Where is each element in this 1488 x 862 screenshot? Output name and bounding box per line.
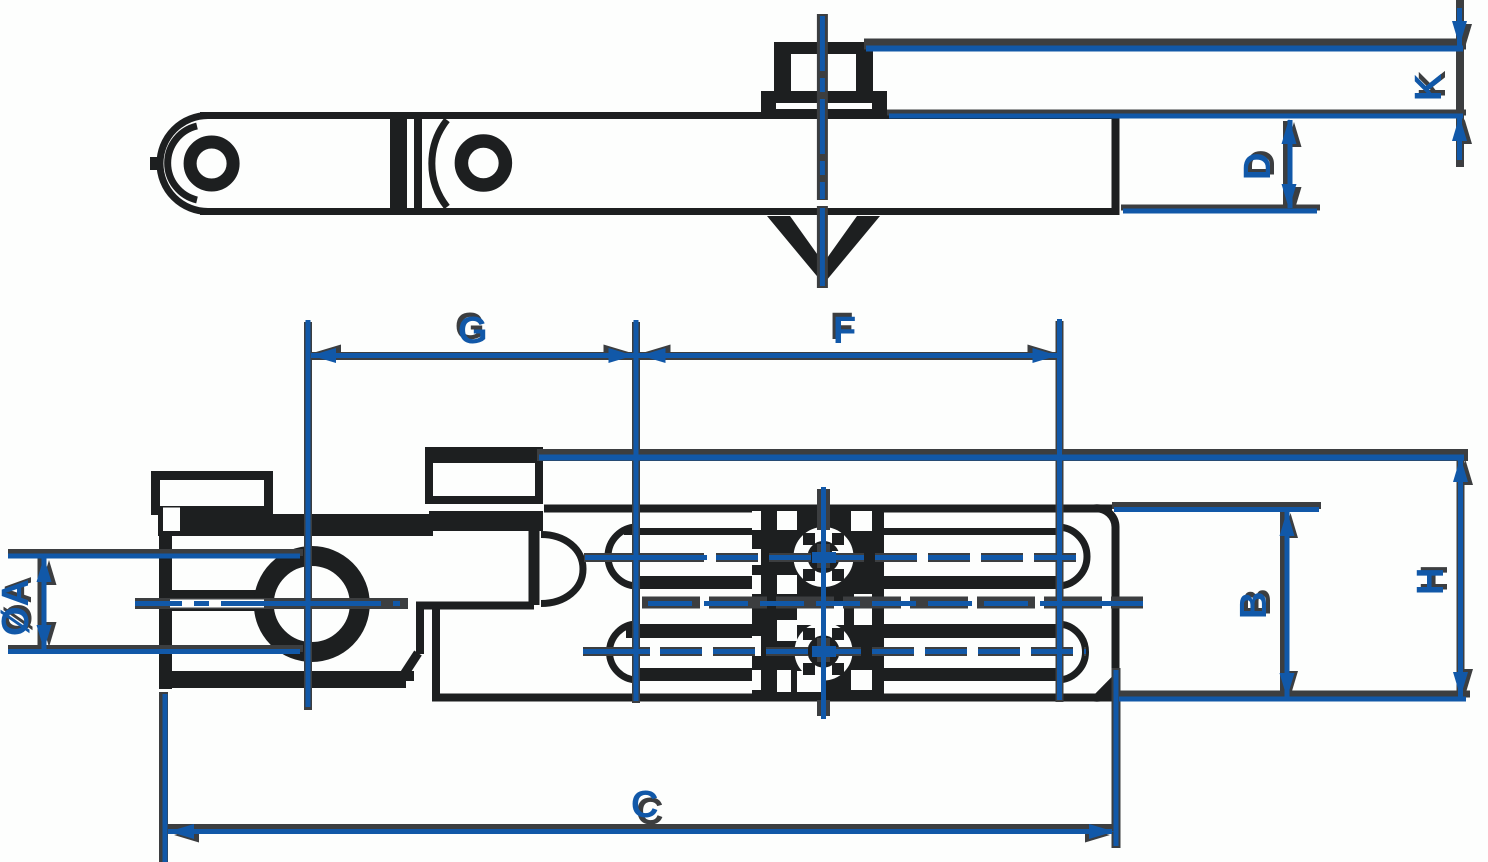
shadow D arrows: [1287, 122, 1302, 147]
C arrow left: [169, 824, 194, 839]
center line casing: spindle tip: [817, 206, 828, 288]
G arrow right: [609, 348, 634, 363]
shadow G arrows: [316, 345, 341, 360]
OA arrow top: [37, 557, 52, 582]
block notch g: [777, 670, 791, 692]
body right end: [1094, 508, 1116, 697]
slot 1 left arc: [608, 527, 638, 586]
K dim blue: [1457, 8, 1462, 46]
main center hline dashed left: [135, 601, 400, 606]
arm fork edge: [529, 531, 540, 605]
B top ext gray: [1112, 502, 1321, 509]
K arrow bottom: [1452, 116, 1467, 141]
boss arc at hole 1: [168, 126, 197, 200]
slot2 center solid: [583, 649, 650, 654]
base top band: [158, 514, 433, 536]
D bottom ext blue: [1123, 209, 1317, 214]
cross bar top band: [425, 447, 543, 463]
bar right end edge: [1112, 112, 1120, 215]
bolt flange left: [761, 91, 776, 115]
main center hline dashed right: [648, 601, 1143, 606]
base bottom band a: [162, 671, 414, 681]
pivot vline gray: [304, 322, 312, 710]
svg-text:H: H: [1410, 568, 1452, 595]
block notch e: [797, 603, 844, 625]
svg-text:C: C: [631, 784, 658, 826]
shadow C arrows: [174, 828, 199, 843]
block notch m: [752, 636, 761, 656]
G dim blue: [311, 353, 636, 358]
svg-text:ØA: ØA: [0, 579, 37, 636]
break line thin: [414, 119, 422, 208]
base bottom band b: [162, 679, 406, 688]
F dim blue: [638, 353, 1058, 358]
slot1 center dashed: [716, 555, 1086, 560]
right vline gray: [1056, 321, 1064, 702]
center line blue: bolt: [820, 16, 825, 199]
OA top ext blue: [8, 554, 300, 559]
pivot vline blue: [306, 320, 311, 707]
H top ext gray: [537, 449, 1468, 461]
B top ext blue: [1114, 507, 1319, 512]
block notch d: [854, 594, 872, 625]
K top ext gray: [864, 39, 1466, 50]
nut vline gray top: [817, 489, 830, 530]
OA arrow bottom: [37, 625, 52, 650]
D bottom ext gray: [1121, 205, 1320, 211]
corner step chamfer: [403, 653, 418, 676]
rod 1 top edge: [624, 528, 1060, 535]
spindle nut block: [752, 505, 884, 701]
body top edge: [544, 505, 1112, 513]
block notch j: [752, 511, 761, 530]
G arrow left: [311, 348, 336, 363]
svg-text:D: D: [1237, 153, 1279, 180]
C right ext gray: [1112, 668, 1121, 848]
arm web edge: [432, 607, 440, 700]
H arrow bottom: [1453, 672, 1468, 697]
rod 2 top band: [626, 624, 1060, 638]
center line casing: bolt: [817, 14, 828, 200]
nut cross wide 1: [812, 552, 836, 563]
base left edge: [159, 531, 172, 689]
main hline gray casing left: [135, 598, 408, 609]
nut flat glint: [832, 551, 840, 559]
nut ring 1: [801, 534, 847, 580]
body bottom edge: [432, 694, 1112, 702]
body corner fillet: [1088, 669, 1120, 701]
D arrow bottom: [1282, 184, 1297, 209]
C right ext blue: [1114, 670, 1119, 846]
F dim gray: [640, 352, 1059, 360]
nut hex corner d: [832, 569, 844, 581]
slot2 cline gray casing: [583, 647, 650, 656]
C left ext blue: [163, 694, 168, 862]
svg-text:G: G: [458, 310, 488, 352]
arm bottom edge: [416, 602, 534, 610]
bar left rounded end: [160, 116, 208, 212]
slot2 center dashed: [660, 649, 1086, 654]
break line thick: [390, 112, 407, 215]
arm rounded cap: [541, 535, 583, 604]
block notch l: [752, 575, 761, 594]
handle grip: [156, 476, 269, 511]
shadow OA arrows: [42, 560, 57, 585]
block notch a: [777, 511, 797, 530]
shadow H arrows: [1458, 460, 1473, 485]
nut vline blue: [821, 487, 826, 719]
OA dim gray: [38, 557, 45, 650]
center line blue: spindle tip: [820, 208, 825, 286]
slot 2 left arc: [610, 624, 638, 680]
OA bot ext blue: [8, 649, 300, 654]
bolt head right: [856, 42, 873, 92]
H top ext blue: [539, 455, 1464, 461]
nut ring 2: [801, 629, 846, 674]
block notch f: [777, 620, 797, 641]
svg-text:F: F: [833, 310, 856, 352]
right vline blue: [1057, 319, 1062, 700]
svg-text:K: K: [1408, 73, 1450, 101]
boss arc at hole 2: [432, 120, 447, 207]
OA dim blue: [42, 557, 47, 650]
D dim gray: [1283, 121, 1291, 207]
hole 2: [461, 141, 505, 185]
bolt head top: [774, 42, 873, 54]
wire: bar top edge: [200, 112, 1119, 119]
nut vline gray c2: [817, 638, 830, 662]
arm shank to grip: [172, 590, 260, 611]
H dim blue: [1458, 458, 1463, 697]
B dim blue: [1285, 511, 1290, 698]
K top ext blue: [866, 46, 1463, 52]
nut hex corner f: [803, 628, 815, 640]
nut hex corner e: [832, 628, 844, 640]
bolt head left: [774, 42, 791, 92]
block notch b: [851, 511, 872, 531]
spindle tip cone: [767, 216, 880, 284]
pivot boss ring: [264, 556, 360, 652]
handle notch: [163, 508, 180, 532]
H arrow top: [1453, 457, 1468, 482]
D dim blue: [1288, 120, 1293, 208]
nut hex corner a: [832, 533, 844, 545]
shadow K arrows: [1457, 24, 1472, 49]
H dim gray: [1457, 457, 1465, 698]
block notch n: [752, 670, 761, 690]
shadow B arrows: [1283, 513, 1298, 538]
slot 2 right arc: [1058, 624, 1086, 680]
main center hline solid right end: [1045, 601, 1143, 606]
main hline gray casing right: [642, 597, 1143, 609]
slot1 cline gray casing: [584, 553, 704, 562]
nut hex corner h: [832, 663, 844, 675]
F arrow left: [641, 348, 666, 363]
left pin nub: [150, 157, 160, 170]
arm corner edge: [416, 605, 424, 654]
nut cross wide 2: [812, 646, 836, 657]
OA top ext gray: [8, 549, 303, 556]
slot1 cline gray dashed: [716, 553, 1086, 562]
C arrow right: [1089, 824, 1114, 839]
bottom shared ext gray: [1119, 691, 1470, 698]
bolt flange right: [872, 91, 887, 115]
G dim gray: [311, 352, 636, 360]
block notch c: [777, 575, 797, 594]
svg-text:B: B: [1233, 592, 1275, 619]
block notch h: [851, 670, 872, 690]
OA bot ext gray: [8, 645, 303, 652]
main center hline solid over circle: [250, 601, 378, 606]
bolt flange bottom: [761, 109, 887, 115]
B arrow bottom: [1280, 673, 1295, 698]
C left ext gray: [159, 692, 168, 862]
shadow F arrows: [646, 345, 671, 360]
mid vline gray: [632, 322, 640, 703]
wire: bar bottom edge: [200, 208, 1119, 215]
bottom shared ext blue: [1119, 697, 1466, 702]
rod 2 bottom band: [634, 668, 1060, 681]
slot1 center solid: [585, 555, 707, 560]
band under cross bar: [429, 511, 543, 531]
B dim gray: [1280, 510, 1287, 699]
bolt flange top: [761, 91, 887, 103]
nut hex corner c: [803, 569, 815, 581]
slot 1 right arc: [1058, 527, 1088, 586]
block notch i: [797, 671, 822, 692]
mid vline blue: [634, 320, 639, 701]
C dim blue: [168, 829, 1112, 834]
bar top ext blue: [889, 114, 1463, 119]
hole 1: [190, 142, 233, 185]
cross bar block: [429, 452, 539, 500]
slot2 cline gray dashed: [660, 647, 1086, 656]
B arrow top: [1280, 511, 1295, 536]
D arrow top: [1282, 119, 1297, 144]
K dim line gray: [1456, 0, 1464, 167]
bar top ext gray: [887, 110, 1466, 116]
nut hex corner g: [803, 663, 815, 675]
K arrow top: [1452, 21, 1467, 46]
nut vline gray c1: [817, 544, 830, 568]
center line white backing over arm shank: [170, 600, 264, 608]
rod 1 bottom band: [632, 576, 1060, 589]
nut vline gray bottom: [817, 700, 830, 716]
nut hex corner b: [803, 533, 815, 545]
C dim gray: [168, 824, 1112, 831]
block notch k: [752, 549, 761, 565]
F arrow right: [1033, 348, 1058, 363]
spindle tip notch: [790, 216, 857, 263]
